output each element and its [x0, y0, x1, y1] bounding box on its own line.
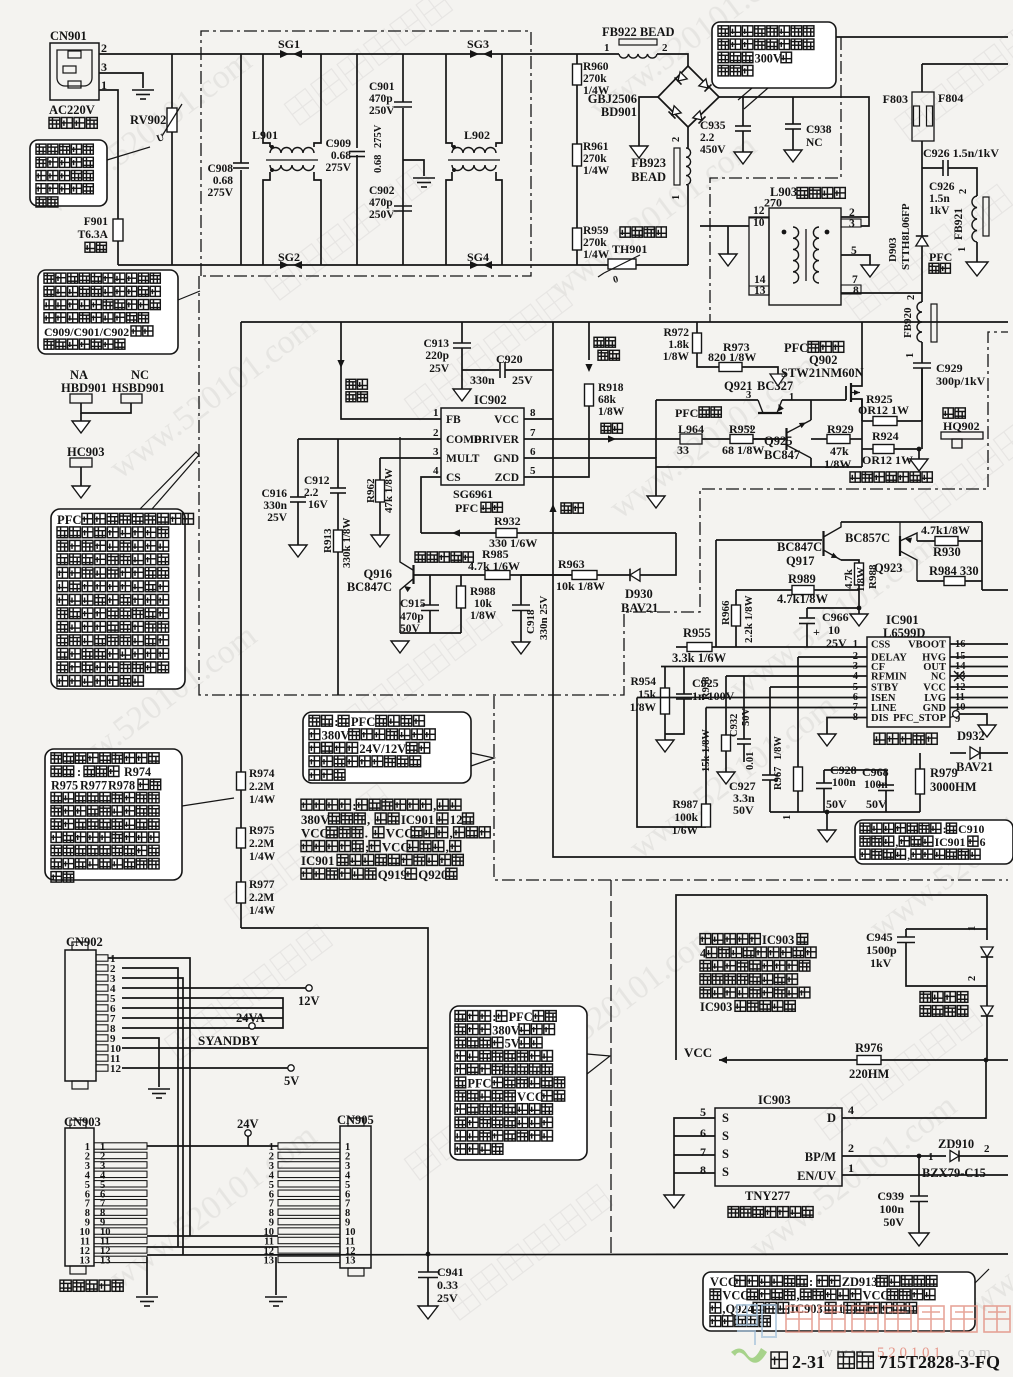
svg-text:VCC: VCC [301, 827, 329, 841]
svg-text:T6.3A: T6.3A [78, 229, 109, 241]
resistor R955 3.3k [687, 643, 712, 652]
callout: anti-interference circuit note [38, 270, 178, 354]
IC901 right pin wires [950, 643, 1008, 645]
svg-text:IC901: IC901 [401, 813, 434, 827]
snubber diode 2 [981, 1006, 993, 1016]
svg-text:TNY277: TNY277 [745, 1189, 790, 1203]
svg-text::: : [809, 1275, 813, 1289]
svg-text:R979: R979 [930, 766, 958, 780]
capacitor C902 [394, 205, 412, 207]
callout: sub power note [450, 1006, 587, 1160]
svg-text:VCC: VCC [684, 1045, 712, 1060]
svg-text:R958: R958 [701, 677, 712, 700]
svg-text:RV902: RV902 [130, 113, 166, 127]
svg-text:C929: C929 [936, 361, 963, 375]
transistor Q917 BC847C [822, 531, 824, 556]
callout: VCC abnormal protection [703, 1272, 975, 1331]
ground arrow STBY net [769, 805, 771, 812]
svg-text:BP/M: BP/M [805, 1150, 836, 1164]
svg-text:R977: R977 [249, 879, 275, 891]
dash-dot boundary mid [494, 696, 1008, 880]
svg-text:1.5n: 1.5n [929, 193, 950, 205]
svg-text:C926 1.5n/1kV: C926 1.5n/1kV [923, 146, 999, 160]
wire LINE pin7 row [706, 707, 867, 709]
svg-text:R918: R918 [598, 382, 624, 394]
svg-text:STBY: STBY [871, 683, 899, 694]
ground arrow R988b [858, 608, 860, 614]
connector CN901 (AC inlet) [50, 43, 99, 100]
svg-text:300p/1kV: 300p/1kV [936, 374, 986, 388]
svg-text:AC220V: AC220V [49, 103, 95, 117]
capacitor C918 330n [520, 575, 522, 605]
wire CN903 ground [146, 1257, 148, 1295]
svg-text:1: 1 [848, 1161, 854, 1175]
resistor R962 47k [379, 458, 381, 480]
svg-text:1/8W: 1/8W [773, 736, 784, 760]
svg-text:,: , [797, 1288, 800, 1302]
wire Q921 to gate rail [782, 399, 846, 401]
svg-text:VCC: VCC [494, 414, 519, 426]
svg-text:SYANDBY: SYANDBY [198, 1033, 260, 1048]
svg-text:.: . [365, 827, 368, 841]
resistor R977 2.2M [237, 882, 246, 903]
svg-text:C908: C908 [207, 163, 233, 175]
svg-text:C915: C915 [400, 598, 426, 610]
svg-text:BAV21: BAV21 [621, 601, 658, 615]
svg-text:270k: 270k [583, 73, 607, 85]
svg-text:470p: 470p [400, 611, 424, 623]
wire EN/UV pin [842, 1174, 1008, 1176]
wire ZCD pin5 / zero cross [524, 406, 589, 477]
svg-text:,: , [449, 827, 452, 841]
svg-text:C935: C935 [700, 120, 726, 132]
svg-text:24V: 24V [237, 1117, 259, 1131]
svg-text:470p: 470p [369, 197, 393, 209]
svg-text:100n: 100n [832, 777, 856, 789]
svg-text:1n 100V: 1n 100V [692, 689, 735, 703]
callout: feedback protection note [855, 820, 1013, 864]
wire Q916 emitter ground rail [400, 632, 461, 634]
wire CN902 pin10 SYANDBY [122, 1047, 428, 1049]
svg-text:HQ902: HQ902 [943, 419, 980, 433]
svg-text:13: 13 [754, 285, 766, 297]
mid earth ground [403, 160, 424, 176]
label output connector [60, 1280, 123, 1291]
svg-text:MULT: MULT [446, 453, 480, 465]
wire Q917 base feed [716, 539, 822, 541]
heatsink HQ902 [943, 408, 965, 418]
svg-text:R960: R960 [583, 61, 609, 73]
capacitor C932 0.01u [743, 676, 745, 739]
wires IC903 S pins to ground [674, 1118, 715, 1195]
wire 24V row [147, 1145, 278, 1147]
svg-text:12: 12 [753, 205, 765, 217]
resistor R973 820 [719, 363, 742, 372]
svg-text:IC903: IC903 [762, 933, 794, 947]
ferrite bead FB920 [917, 302, 922, 342]
svg-text:C968: C968 [862, 765, 889, 779]
svg-text:50V: 50V [733, 803, 754, 817]
svg-text:PFC: PFC [467, 1077, 491, 1091]
svg-text:DIS: DIS [871, 713, 889, 724]
svg-text:1: 1 [782, 815, 793, 820]
svg-text:5V: 5V [284, 1074, 299, 1088]
svg-text:4: 4 [433, 465, 439, 477]
svg-text:3: 3 [849, 218, 855, 230]
svg-text:R988: R988 [470, 586, 496, 598]
svg-text:2: 2 [662, 42, 668, 54]
svg-text:+: + [813, 625, 820, 639]
svg-text:Q916: Q916 [364, 567, 392, 581]
capacitor C912 2.2u [337, 439, 339, 488]
wire row12 [147, 1246, 278, 1248]
sub power section box [676, 895, 987, 1060]
svg-text:15k: 15k [638, 689, 657, 701]
svg-text:R930: R930 [933, 545, 961, 559]
svg-text:24V/12V: 24V/12V [359, 742, 406, 756]
svg-text:1/8W: 1/8W [663, 351, 690, 363]
svg-text:C902: C902 [369, 185, 395, 197]
svg-text:RFMIN: RFMIN [871, 672, 907, 683]
wire COMP pin2 [298, 438, 441, 440]
svg-text:10: 10 [828, 623, 840, 637]
svg-text:275V: 275V [207, 187, 233, 199]
svg-text:13: 13 [345, 1255, 356, 1266]
svg-text:1.8k: 1.8k [668, 339, 689, 351]
svg-text:NC: NC [806, 137, 823, 149]
svg-text:330n: 330n [470, 373, 495, 387]
capacitor C909 [356, 54, 358, 148]
ground arrow C916 [289, 545, 307, 557]
svg-text:1/6W: 1/6W [672, 825, 699, 837]
svg-text:3: 3 [746, 390, 751, 401]
svg-text:R967: R967 [773, 767, 784, 790]
wire VCC row [719, 1059, 857, 1061]
repair tip text block (main power) [301, 799, 350, 810]
resistor R918 68k [585, 384, 594, 406]
svg-text:Q925: Q925 [764, 434, 792, 448]
svg-text:IC901: IC901 [935, 835, 966, 849]
ground arrow C939 [909, 1233, 929, 1246]
svg-text:2.2: 2.2 [304, 487, 319, 499]
svg-text:330n: 330n [263, 500, 287, 512]
local ground rail under IC901 [770, 811, 920, 813]
callout: main power note [303, 712, 471, 783]
wire VCC supply column [552, 322, 554, 533]
svg-text:68 1/8W: 68 1/8W [722, 443, 764, 457]
svg-text:220p: 220p [425, 350, 449, 362]
resistor R958 15k [725, 676, 727, 735]
callout: varistor note [30, 140, 107, 206]
svg-text:0.33: 0.33 [437, 1278, 458, 1292]
svg-text:1/8W: 1/8W [598, 406, 625, 418]
wire ISEN pin6 row [637, 697, 867, 699]
svg-text:CSS: CSS [871, 640, 890, 651]
svg-text:25V: 25V [437, 1291, 458, 1305]
svg-text:IC901: IC901 [301, 854, 334, 868]
resistor R987 100k [705, 708, 707, 805]
ferrite bead FB921 [972, 196, 977, 242]
wire RFMIN pin4 row [726, 675, 867, 677]
svg-text:1: 1 [433, 407, 439, 419]
wire BP/M pin [842, 1155, 919, 1157]
svg-text:13: 13 [264, 1255, 275, 1266]
resistor R988 10k [460, 575, 462, 586]
svg-text:FB921: FB921 [953, 208, 965, 240]
transistor Q902 STW21NM60N MOSFET [845, 386, 847, 400]
drive arrow label [601, 423, 622, 433]
svg-text:VCC: VCC [923, 683, 946, 694]
wire row11 [147, 1235, 278, 1237]
wire supply rail to gnd rail [553, 533, 1008, 857]
svg-text:6: 6 [700, 1126, 706, 1140]
svg-text:SG3: SG3 [467, 37, 489, 51]
svg-text:C920: C920 [496, 352, 523, 366]
wire top right rail [836, 36, 1008, 38]
svg-text:2: 2 [984, 1143, 990, 1155]
snubber loop [986, 895, 988, 940]
wire CN901 pin2 to EMI filter [99, 53, 619, 55]
wire mains bottom rail [118, 264, 688, 266]
capacitor C908 [240, 54, 242, 163]
svg-text:ZD913: ZD913 [842, 1275, 878, 1289]
svg-text:2: 2 [967, 976, 978, 981]
svg-text:47k: 47k [830, 444, 849, 458]
svg-text:5V: 5V [505, 1037, 520, 1051]
svg-text:25V: 25V [512, 373, 533, 387]
svg-text:13: 13 [80, 1255, 91, 1266]
svg-text:16V: 16V [308, 499, 329, 511]
svg-text:PFC: PFC [57, 513, 81, 527]
svg-text:33: 33 [677, 443, 689, 457]
svg-text:10k 1/8W: 10k 1/8W [556, 579, 605, 593]
svg-text:,: , [907, 848, 910, 862]
svg-text:FB923: FB923 [631, 156, 666, 170]
terminal 5V [288, 1065, 294, 1071]
wire GND pin6 to ground [524, 458, 656, 496]
svg-text:1/4W: 1/4W [583, 249, 610, 261]
svg-text:50V: 50V [741, 708, 752, 727]
wire out right [982, 589, 1008, 591]
svg-text:C966: C966 [822, 610, 849, 624]
svg-text:1: 1 [789, 392, 794, 403]
svg-text:4.7k1/8W: 4.7k1/8W [777, 592, 829, 606]
wire CN905 ground [275, 1257, 277, 1295]
svg-text:D930: D930 [625, 587, 653, 601]
svg-text:R954: R954 [630, 676, 656, 688]
svg-text:6: 6 [980, 835, 986, 849]
svg-text:C912: C912 [304, 475, 330, 487]
svg-text:275V: 275V [373, 124, 384, 148]
capacitor C913 220p [461, 322, 463, 343]
resistor R975 2.2M [237, 828, 246, 848]
svg-text:,Q924: ,Q924 [722, 1302, 753, 1316]
transistor Q925 BC847 [785, 428, 787, 450]
svg-text:OR12 1W: OR12 1W [858, 403, 909, 417]
svg-text:D932: D932 [957, 729, 985, 743]
capacitor C901 [402, 54, 404, 102]
svg-text:CN901: CN901 [50, 29, 87, 43]
svg-text:R975: R975 [51, 778, 78, 792]
svg-text:PFC: PFC [675, 406, 698, 420]
ground arrow Q916 [391, 641, 409, 653]
svg-text:4: 4 [700, 946, 706, 960]
wire Q917 collector top rail [841, 521, 982, 523]
wire R932 row [421, 532, 676, 534]
svg-text:220HM: 220HM [849, 1067, 889, 1081]
wire bridge minus to ground [639, 97, 658, 146]
svg-text:NC: NC [131, 368, 149, 382]
svg-text:FB: FB [446, 414, 461, 426]
svg-text:270k: 270k [583, 237, 607, 249]
svg-text:10: 10 [753, 217, 765, 229]
wire DIS pin8 stub to ground [827, 718, 867, 735]
svg-text:R989: R989 [788, 572, 816, 586]
svg-text:2: 2 [101, 41, 107, 55]
diode D930 BAV21 [630, 569, 640, 581]
varistor RV902 [171, 54, 173, 108]
ground arrow R954 [656, 740, 674, 752]
svg-text:2: 2 [958, 189, 969, 194]
svg-text:715T2828-3-FQ: 715T2828-3-FQ [879, 1352, 1000, 1372]
svg-text:4.7k: 4.7k [843, 568, 855, 589]
capacitor C939 100n [918, 1156, 920, 1196]
wire Q925 emitter rail [656, 466, 862, 468]
svg-text:STW21NM60N: STW21NM60N [781, 366, 864, 380]
svg-text:L901: L901 [252, 128, 278, 142]
svg-text:50V: 50V [826, 797, 847, 811]
svg-text:1: 1 [957, 247, 968, 252]
wire bridge plus rail 300V [719, 97, 869, 217]
svg-text:R978: R978 [108, 778, 135, 792]
svg-text:PFC: PFC [351, 715, 375, 729]
capacitor C927 3.3n [769, 687, 771, 775]
ground arrow C938 [784, 150, 802, 162]
svg-text:1kV: 1kV [870, 956, 892, 970]
svg-text:EN/UV: EN/UV [797, 1169, 836, 1183]
fuse F803/F804 parallel [922, 63, 1008, 65]
svg-text:1: 1 [838, 1302, 844, 1316]
resistor R932 330 [496, 529, 517, 538]
svg-text:C932: C932 [729, 714, 740, 737]
svg-text:R959: R959 [583, 225, 609, 237]
svg-text:2.2M: 2.2M [249, 892, 274, 904]
resistor R959 270k current limiter [573, 228, 582, 250]
svg-text:,: , [895, 835, 898, 849]
wires CN902 pins5-8 bus [122, 998, 283, 1028]
svg-text:300V: 300V [755, 51, 782, 65]
svg-text:C901: C901 [369, 81, 395, 93]
ground earth at pin3 [132, 89, 154, 91]
svg-text:,: , [433, 799, 436, 813]
svg-text:6: 6 [530, 446, 536, 458]
svg-text:Q917: Q917 [786, 554, 814, 568]
svg-text:R988: R988 [867, 564, 879, 589]
svg-text:OR12 1W: OR12 1W [862, 453, 913, 467]
svg-text:L902: L902 [464, 128, 490, 142]
svg-text:PFC: PFC [455, 501, 478, 515]
svg-text:VCC: VCC [386, 827, 414, 841]
capacitor C925 1n [683, 667, 685, 695]
section boundary dash-dot left/bottom [199, 276, 1008, 695]
svg-text:HBD901: HBD901 [61, 381, 107, 395]
wire CF pin3 row [661, 666, 867, 668]
svg-text:2: 2 [744, 425, 755, 430]
svg-text:C941: C941 [437, 1265, 464, 1279]
wire CN902 pin9 to earth [122, 1038, 159, 1087]
svg-text:IC902: IC902 [474, 393, 507, 407]
svg-text:100k: 100k [674, 812, 698, 824]
wire CN902 pin3 [122, 978, 183, 1255]
svg-text:NC: NC [931, 672, 946, 683]
svg-text:68k: 68k [598, 394, 617, 406]
svg-text:R955: R955 [683, 626, 711, 640]
svg-text:275V: 275V [325, 162, 351, 174]
svg-text:2.2: 2.2 [700, 132, 715, 144]
callout tail [178, 291, 200, 300]
transistor Q921 BC327 [758, 412, 782, 414]
wire sampling divider column [240, 322, 242, 772]
resistor R961 270k [573, 144, 582, 166]
wire row13 long rail [147, 1254, 1008, 1255]
resistor R966 2.2k [735, 590, 737, 605]
svg-text:1: 1 [928, 1151, 934, 1163]
bridge rectifier BD901 GBJ2506 [658, 66, 719, 127]
svg-text:CN905: CN905 [337, 1113, 374, 1127]
wire R930/R984 right column [981, 522, 983, 590]
svg-text:380V: 380V [301, 813, 330, 827]
wire CN901 pin1 down [99, 90, 118, 265]
svg-text:250V: 250V [369, 209, 395, 221]
svg-text:25V: 25V [429, 363, 450, 375]
capacitor C929 300p/1kV [921, 342, 923, 363]
capacitor C928 100n [823, 770, 825, 783]
svg-text:8: 8 [700, 1163, 706, 1177]
svg-text:5: 5 [700, 1105, 706, 1119]
svg-text:50V: 50V [866, 797, 887, 811]
svg-text:D903: D903 [887, 237, 899, 262]
svg-text:12: 12 [450, 813, 463, 827]
svg-text:HC903: HC903 [67, 445, 105, 459]
svg-text:BC847C: BC847C [777, 540, 822, 554]
svg-text:GND: GND [493, 453, 519, 465]
callout tail [182, 798, 234, 806]
svg-text:100n: 100n [879, 1202, 904, 1216]
resistor R988b 4.7k emitter [841, 560, 859, 563]
svg-text:0.01: 0.01 [745, 752, 756, 770]
svg-text:VCC: VCC [517, 1090, 544, 1104]
svg-text:47k 1/8W: 47k 1/8W [383, 468, 395, 513]
svg-text:VCC: VCC [710, 1275, 737, 1289]
svg-text:ZCD: ZCD [495, 472, 519, 484]
zero cross arrow [588, 322, 590, 360]
svg-text:270k: 270k [583, 153, 607, 165]
resistor R963 10k [521, 574, 572, 576]
svg-text:50V: 50V [883, 1215, 904, 1229]
svg-text:R966: R966 [720, 600, 732, 625]
svg-text:IC903: IC903 [790, 1302, 822, 1316]
svg-text:R974: R974 [124, 765, 151, 779]
callout: mains rectifier filter note [712, 22, 836, 88]
svg-text:R962: R962 [365, 478, 377, 503]
svg-text:S: S [722, 1147, 729, 1161]
capacitor C968 100n [824, 769, 886, 771]
svg-text:NA: NA [70, 368, 88, 382]
svg-text:3: 3 [101, 60, 107, 74]
svg-text:S: S [722, 1129, 729, 1143]
svg-text:D: D [827, 1111, 836, 1125]
capacitor C915 470p [429, 575, 431, 605]
